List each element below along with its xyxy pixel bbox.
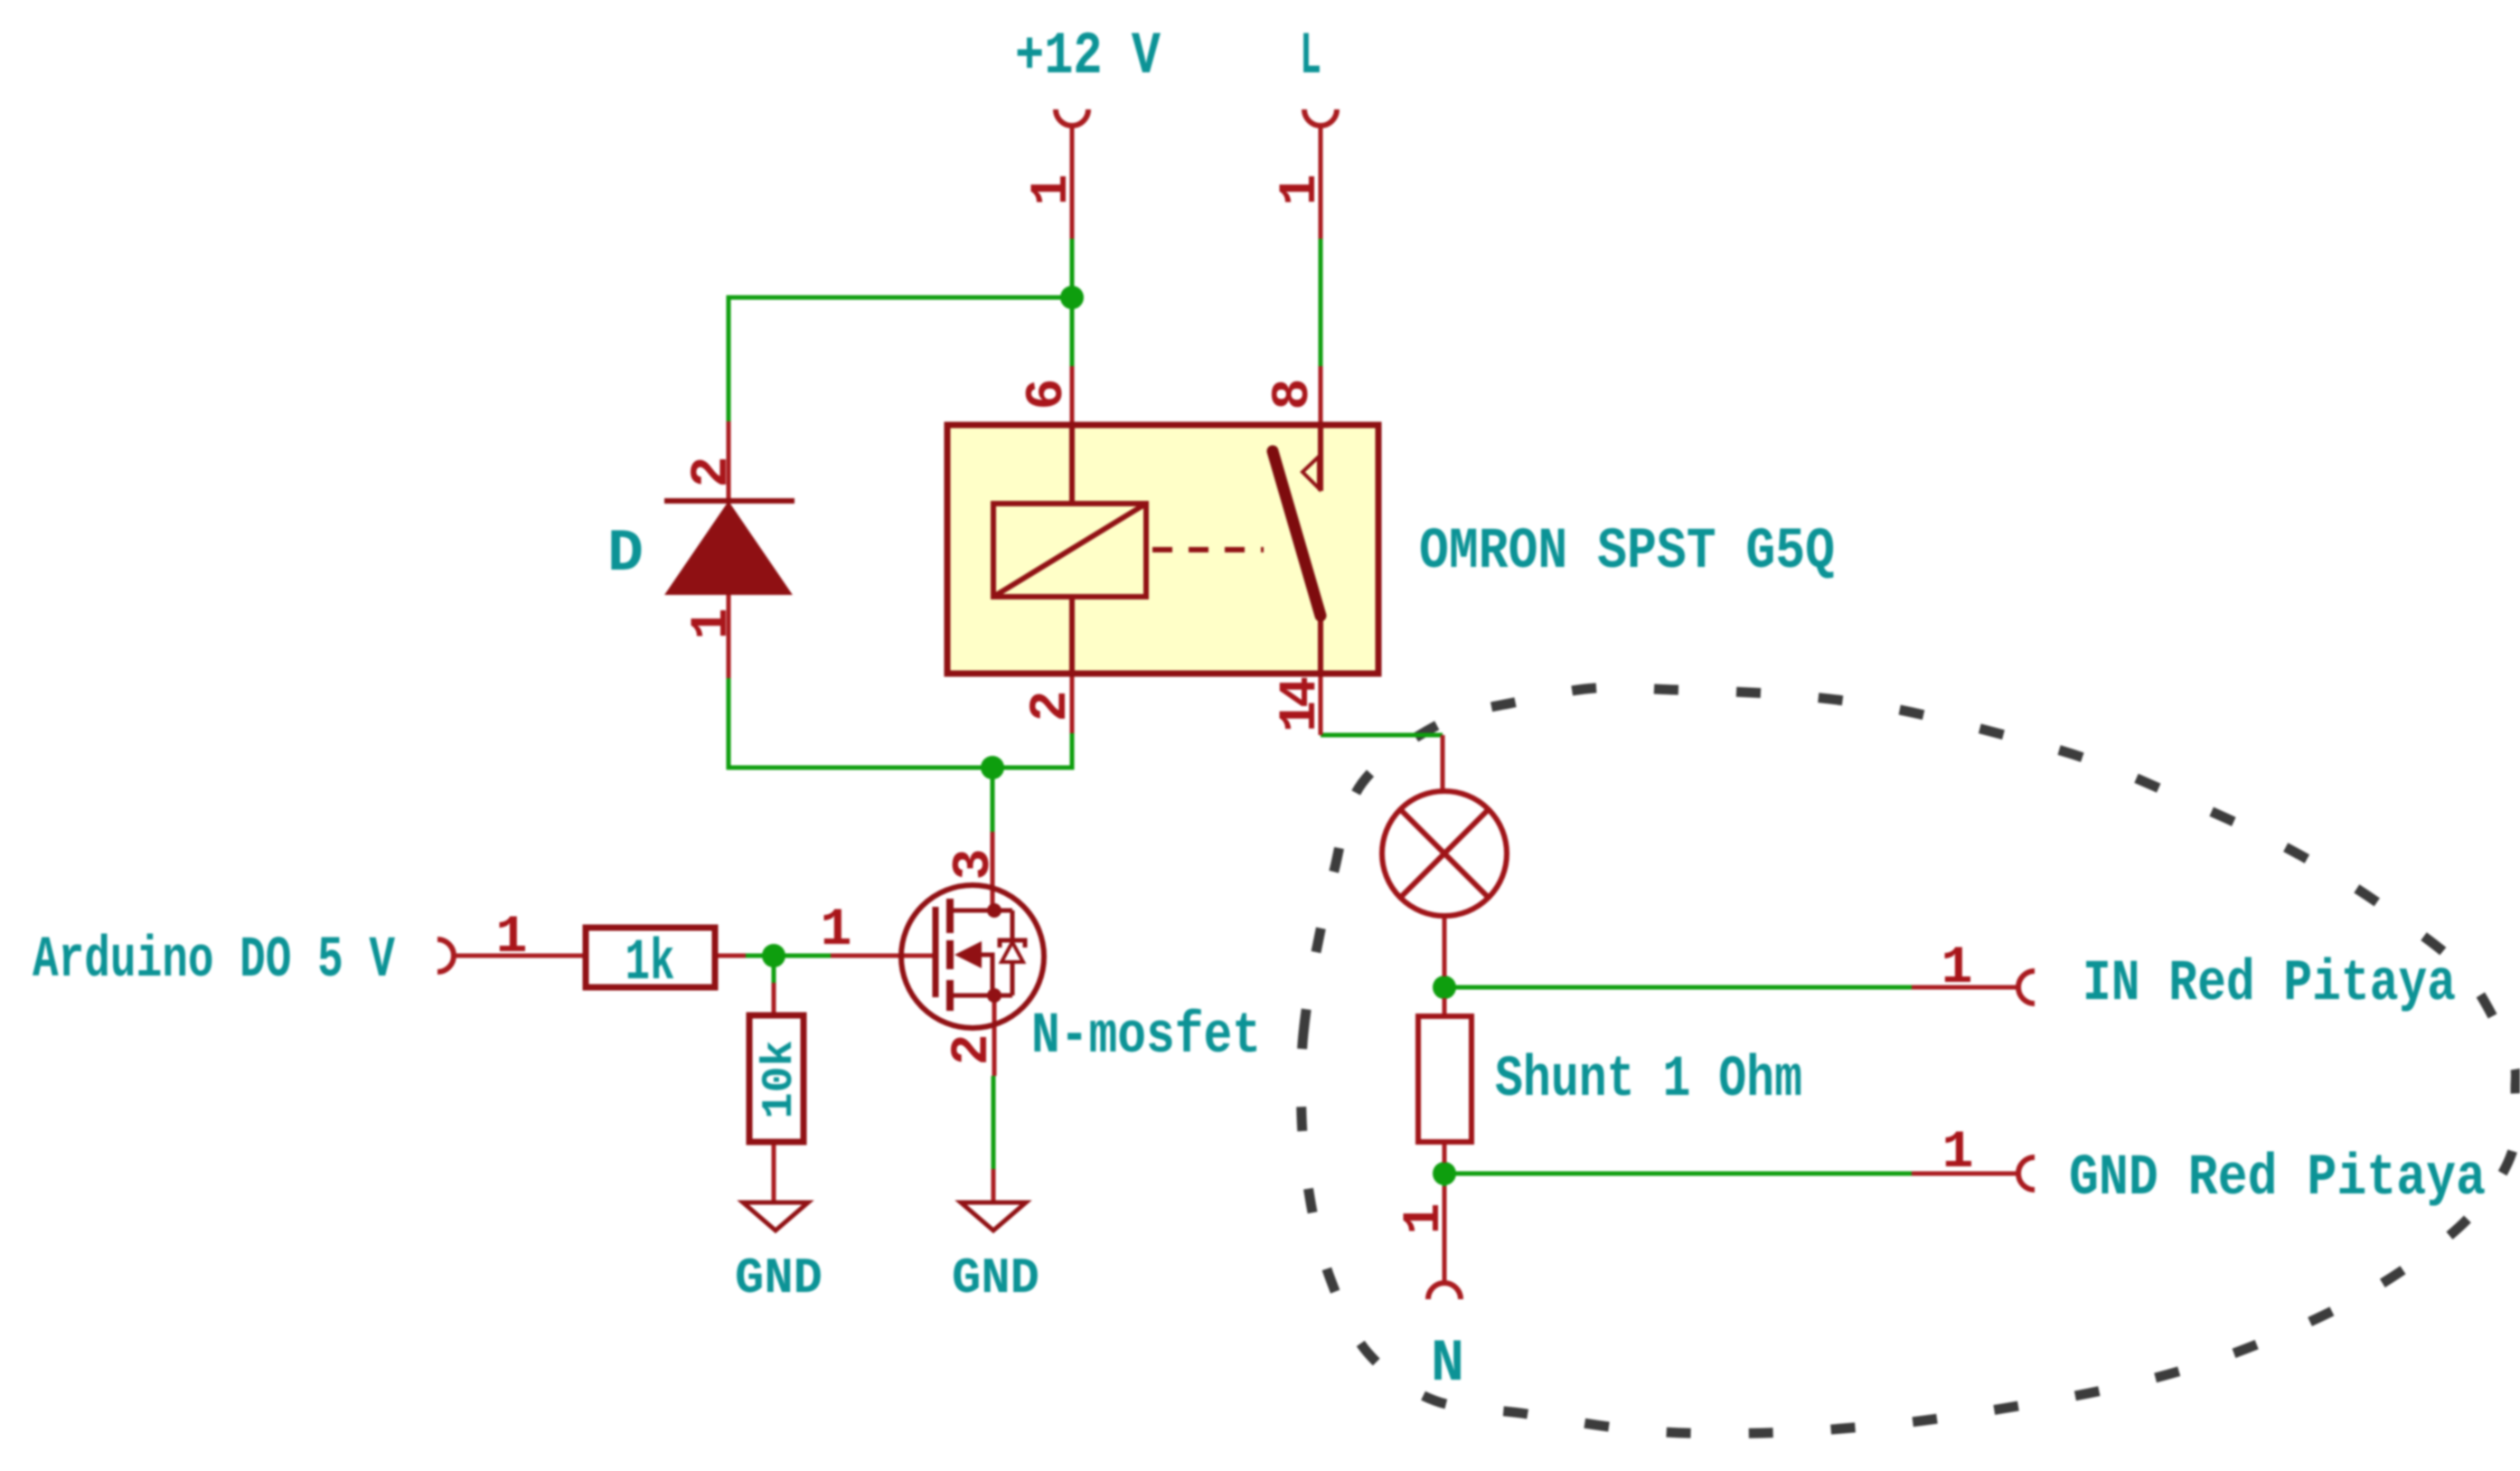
svg-text:N-mosfet: N-mosfet	[1031, 1004, 1261, 1070]
svg-text:1: 1	[1272, 174, 1331, 206]
svg-text:OMRON SPST G5Q: OMRON SPST G5Q	[1419, 520, 1835, 585]
svg-text:14: 14	[1272, 676, 1331, 732]
svg-text:1k: 1k	[625, 931, 675, 996]
svg-text:GND: GND	[735, 1249, 823, 1307]
svg-text:8: 8	[1265, 379, 1323, 410]
svg-text:L: L	[1300, 23, 1321, 90]
svg-text:2: 2	[944, 1034, 1002, 1066]
svg-text:1: 1	[1942, 939, 1973, 998]
svg-text:Shunt 1 Ohm: Shunt 1 Ohm	[1495, 1048, 1802, 1113]
svg-text:1: 1	[683, 608, 742, 640]
svg-text:Arduino DO 5 V: Arduino DO 5 V	[33, 929, 395, 994]
svg-text:10k: 10k	[756, 1041, 804, 1119]
svg-text:+12 V: +12 V	[1015, 23, 1161, 90]
svg-text:2: 2	[1022, 691, 1081, 722]
svg-text:1: 1	[1023, 174, 1082, 206]
svg-text:3: 3	[945, 849, 1004, 881]
svg-text:1: 1	[496, 909, 528, 967]
svg-text:2: 2	[683, 457, 742, 488]
svg-text:1: 1	[1942, 1124, 1974, 1183]
svg-text:D: D	[607, 520, 644, 588]
svg-text:1: 1	[821, 901, 852, 960]
svg-text:GND: GND	[952, 1249, 1039, 1307]
svg-text:N: N	[1431, 1330, 1464, 1398]
svg-text:6: 6	[1019, 379, 1077, 410]
svg-text:1: 1	[1396, 1203, 1454, 1235]
svg-text:IN Red Pitaya: IN Red Pitaya	[2083, 952, 2456, 1017]
svg-text:GND Red Pitaya: GND Red Pitaya	[2069, 1146, 2486, 1212]
